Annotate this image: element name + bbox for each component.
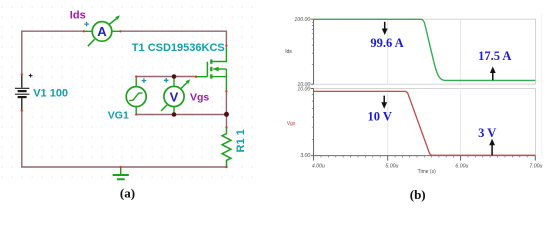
ammeter AM1: [84, 15, 120, 46]
svg-text:17.5 A: 17.5 A: [478, 49, 511, 63]
wire mosfet source down to junction: [225, 92, 227, 115]
bottom plot frame: [314, 89, 536, 156]
resistor R1: [222, 128, 231, 167]
VG1 waveform glyph: [129, 93, 142, 100]
source VG1: [126, 77, 146, 115]
svg-text:3.00: 3.00: [300, 153, 310, 159]
svg-text:99.6 A: 99.6 A: [370, 36, 403, 50]
svg-text:100.00: 100.00: [294, 17, 310, 23]
wire junction to resistor top: [226, 114, 228, 127]
svg-text:10.00: 10.00: [297, 87, 310, 93]
svg-text:(b): (b): [410, 187, 426, 202]
svg-text:(a): (a): [120, 186, 135, 201]
battery plus sign: [29, 74, 33, 78]
voltmeter VM1: [161, 77, 190, 115]
svg-text:Time (s): Time (s): [418, 169, 436, 175]
top plot frame: [314, 19, 536, 156]
svg-text:A: A: [97, 24, 107, 39]
source vertical: [225, 69, 227, 91]
annotation arrow up 17.5: [492, 73, 494, 81]
drain connection: [212, 46, 226, 62]
voltmeter circle: [164, 86, 184, 106]
gridline 6u bottom: [460, 89, 462, 156]
y axis top plot: [313, 19, 315, 84]
wire gate loop top: [136, 76, 196, 78]
body arrow head: [213, 67, 219, 72]
channel bars: [210, 59, 212, 63]
svg-text:V: V: [170, 89, 179, 104]
svg-text:7.00u: 7.00u: [529, 164, 542, 170]
gate bar: [206, 62, 208, 77]
svg-text:4.00u: 4.00u: [312, 164, 325, 170]
gate lead: [196, 76, 207, 78]
gridline 6u top: [460, 19, 462, 84]
svg-text:Ids: Ids: [70, 9, 86, 21]
x major ticks: [314, 156, 536, 161]
body arrow line: [213, 68, 226, 70]
svg-text:6.00u: 6.00u: [455, 164, 468, 170]
ground: [113, 167, 129, 179]
wire top-left: corner to ammeter: [22, 31, 84, 73]
ammeter leads: [84, 30, 120, 32]
y major ticks top: [311, 19, 314, 84]
svg-text:T1 CSD19536KCS: T1 CSD19536KCS: [132, 42, 225, 54]
voltmeter through arrow: [161, 105, 167, 111]
wire gate loop bottom: [136, 114, 226, 116]
voltmeter plus: [164, 78, 169, 83]
wire battery bottom to bottom-left corner and bottom rail: [22, 111, 227, 167]
ammeter through arrow: [88, 39, 95, 46]
VG1 circle: [126, 87, 146, 107]
annotation arrow up 3 V: [491, 145, 493, 155]
svg-text:3 V: 3 V: [478, 126, 496, 140]
gridline 5u top: [387, 19, 389, 84]
svg-text:VG1: VG1: [108, 110, 129, 122]
svg-text:5.00u: 5.00u: [385, 164, 398, 170]
source connection: [212, 76, 226, 78]
y minor ticks bottom: [312, 95, 314, 140]
ammeter circle: [92, 22, 112, 42]
y axis bottom plot: [313, 89, 315, 156]
wire ammeter to top-right corner and down to drain: [120, 31, 226, 45]
voltmeter leads: [173, 77, 175, 115]
trace Vgs red: [314, 91, 536, 155]
transistor T1 nmos: [196, 46, 226, 92]
schematic grid dots: [0, 0, 1, 1]
VG1 plus: [142, 78, 147, 83]
svg-text:Ids: Ids: [285, 49, 292, 55]
battery V1: [15, 74, 33, 111]
svg-text:10 V: 10 V: [367, 109, 391, 123]
terminal dots: [21, 30, 228, 168]
annotation arrow down 10 V: [383, 96, 385, 104]
x minor ticks: [0, 0, 1, 1]
gridline 5u bottom: [387, 89, 389, 156]
plot outer faint border: [541, 15, 543, 159]
x axis: [314, 155, 536, 157]
svg-text:R1 1: R1 1: [235, 129, 247, 152]
VG1 leads: [135, 77, 137, 115]
y major ticks bottom: [311, 89, 314, 156]
junction dots: [172, 74, 177, 79]
y minor ticks top: [312, 22, 314, 64]
svg-text:Vgs: Vgs: [287, 121, 296, 127]
svg-text:V1 100: V1 100: [33, 87, 68, 99]
ammeter plus: [84, 22, 89, 27]
svg-text:Vgs: Vgs: [190, 92, 209, 104]
trace Ids green: [314, 19, 536, 80]
annotation arrow down 99.6: [384, 22, 386, 30]
